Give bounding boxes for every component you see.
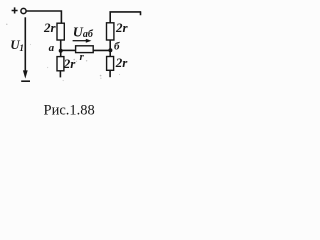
svg-text:2r: 2r — [63, 56, 77, 71]
svg-text:2r: 2r — [43, 20, 57, 35]
svg-text:r: r — [80, 51, 85, 63]
svg-text:Рис.1.88: Рис.1.88 — [44, 103, 95, 119]
svg-text:2r: 2r — [115, 20, 129, 35]
svg-text:2r: 2r — [115, 55, 129, 70]
svg-text:б: б — [114, 41, 120, 53]
svg-text:a: a — [49, 42, 55, 54]
